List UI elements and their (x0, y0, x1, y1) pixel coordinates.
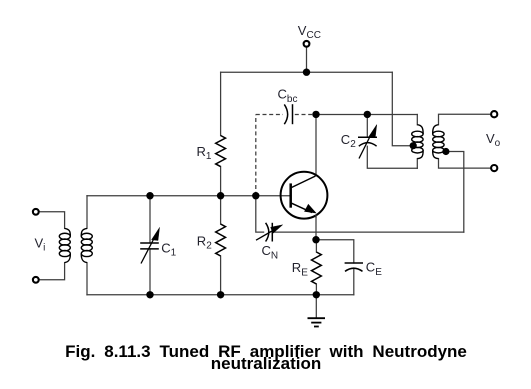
svg-text:neutralization: neutralization (211, 354, 322, 373)
